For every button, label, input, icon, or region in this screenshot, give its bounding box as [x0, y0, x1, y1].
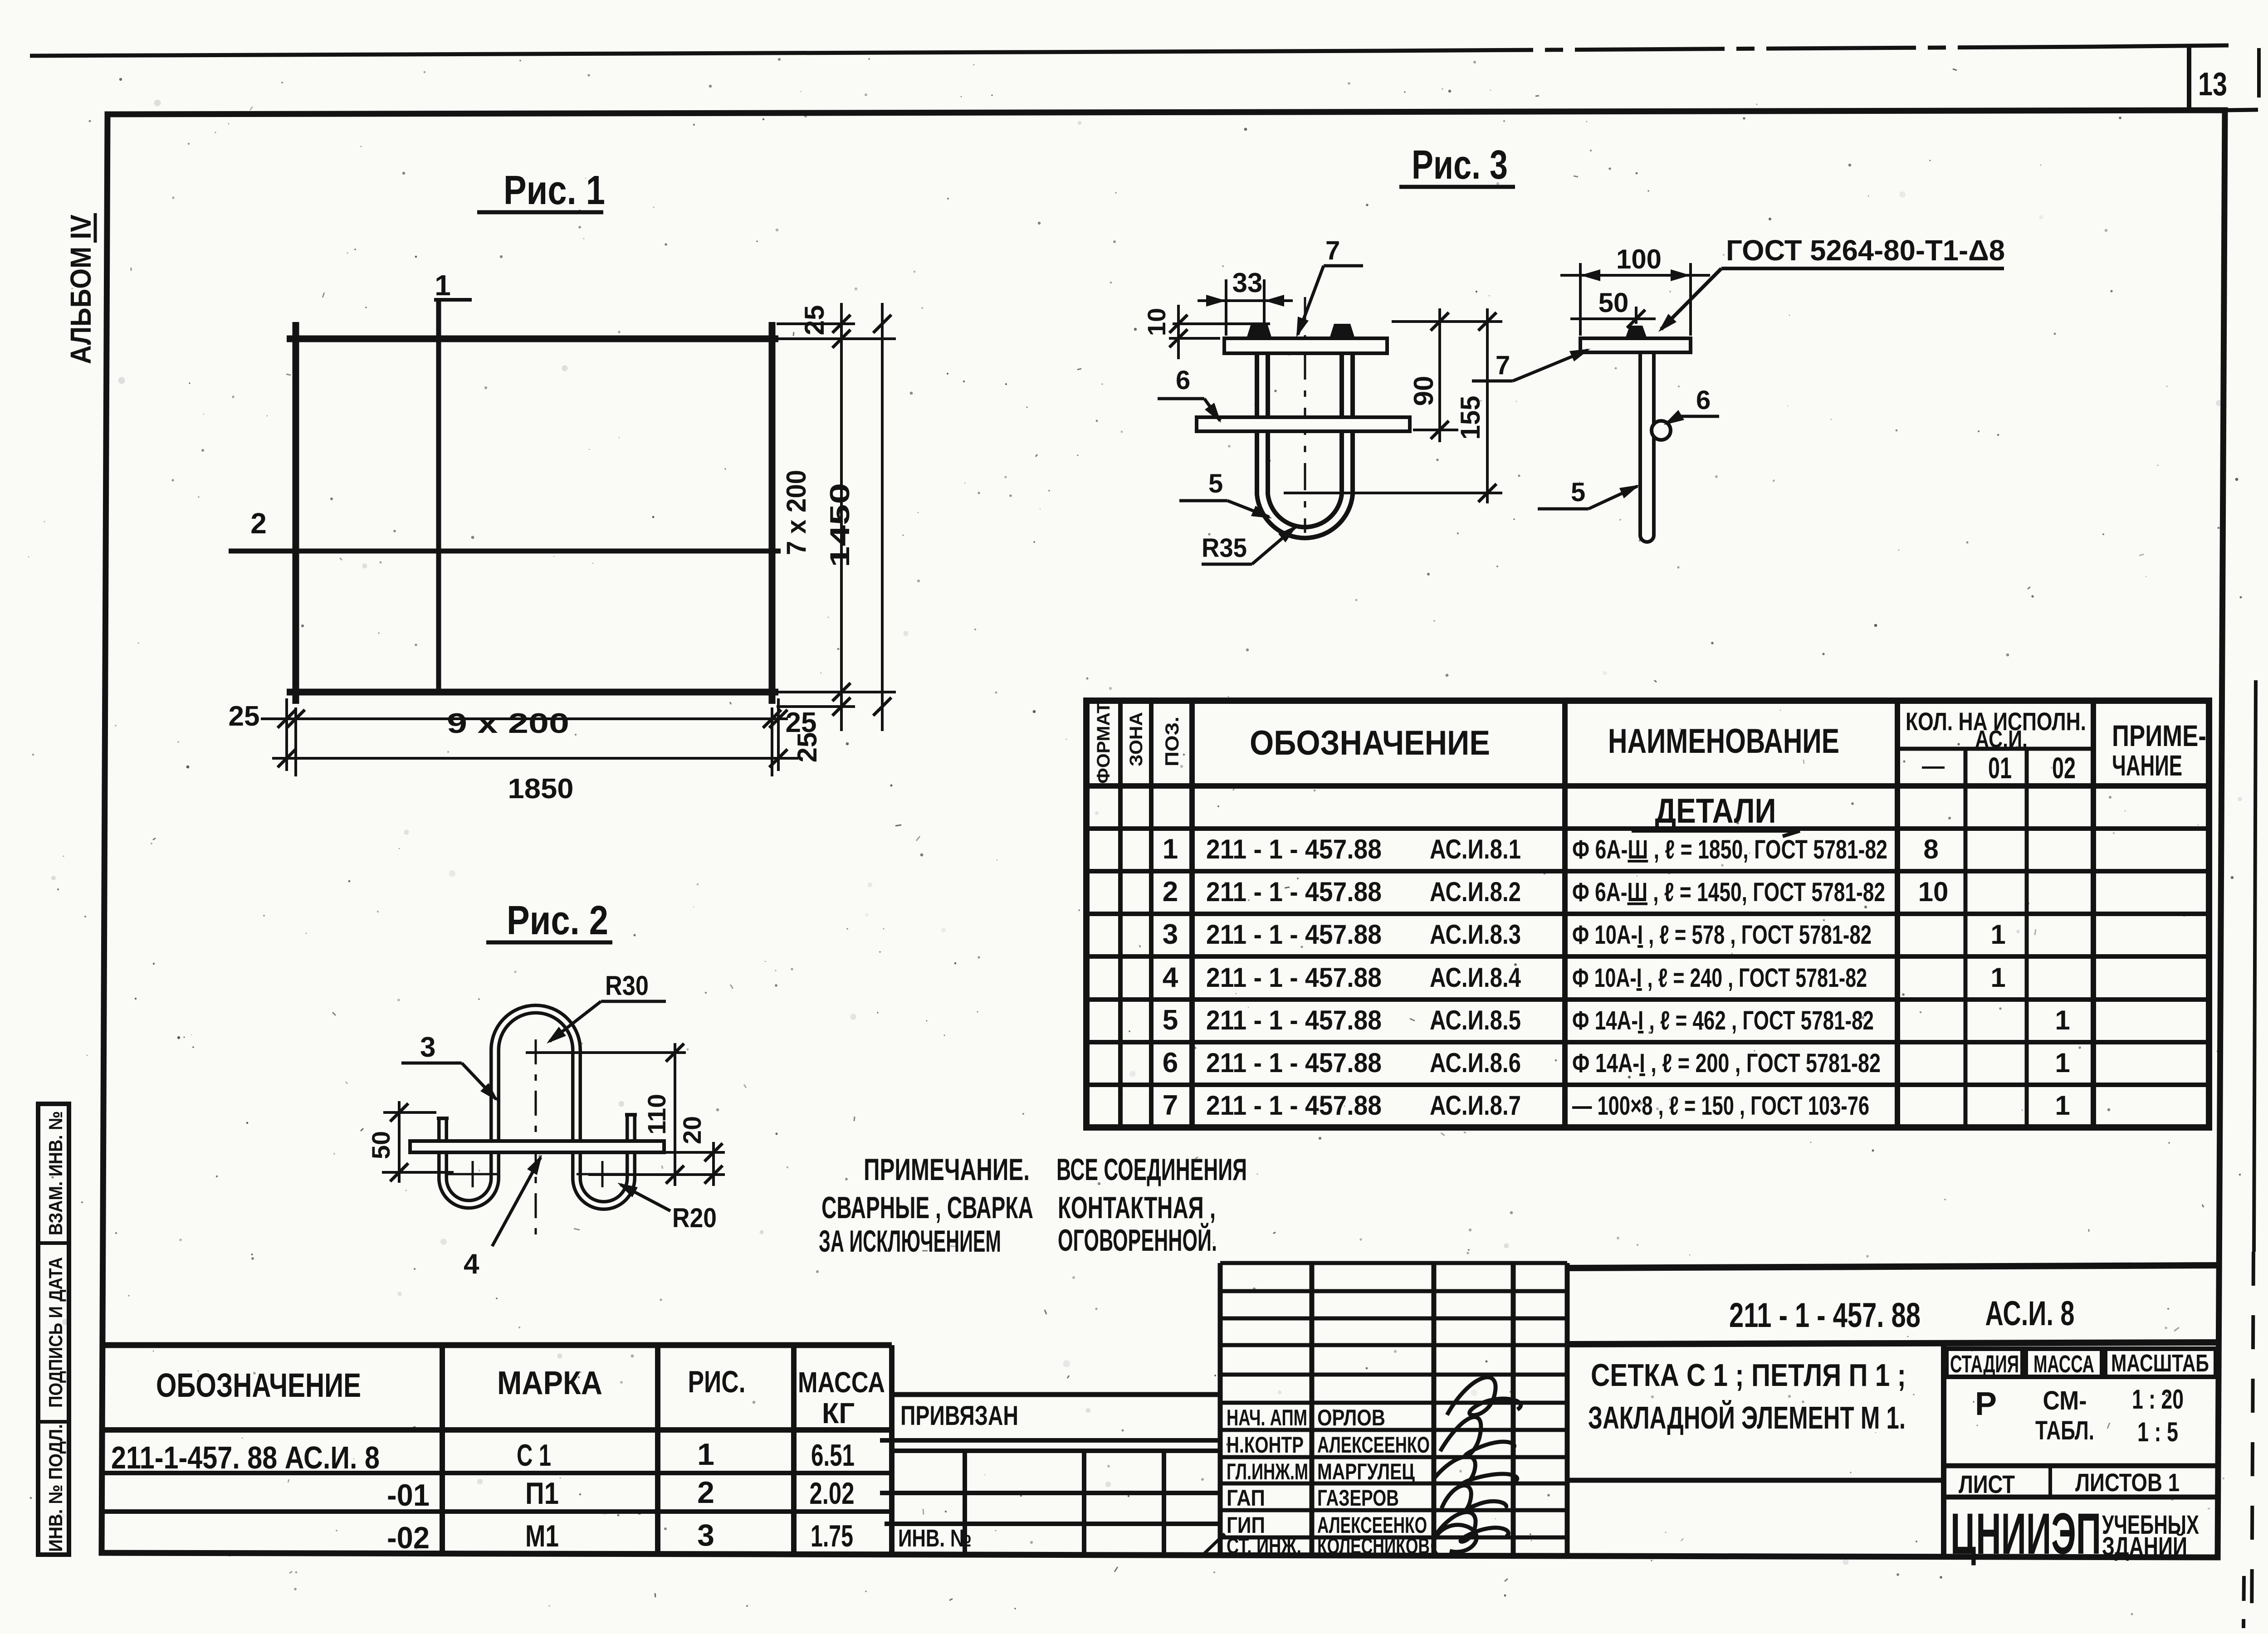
organization box top line [1944, 1495, 2218, 1500]
svg-text:25: 25 [786, 707, 817, 738]
svg-text:4: 4 [1163, 962, 1178, 993]
svg-text:ГОСТ 5264-80-Т1-Δ8: ГОСТ 5264-80-Т1-Δ8 [1726, 234, 2005, 267]
svg-text:7: 7 [1163, 1090, 1178, 1121]
fig2 right hook center cross [577, 1173, 628, 1176]
svg-text:1: 1 [1990, 919, 2005, 950]
fig1 dim line 25+9x200+25 [261, 717, 788, 720]
sig col line x=3336 [1511, 1263, 1516, 1556]
svg-text:АС.И.8.1: АС.И.8.1 [1430, 834, 1521, 864]
fig2 left hook center cross [447, 1173, 499, 1176]
svg-text:-01: -01 [387, 1478, 430, 1512]
svg-text:ГЛ.ИНЖ.М: ГЛ.ИНЖ.М [1227, 1459, 1308, 1484]
marks table col line at 975 [440, 1345, 445, 1555]
fig3 dim 50 [1635, 307, 1637, 324]
svg-text:7: 7 [1325, 236, 1340, 265]
svg-text:7: 7 [1496, 351, 1510, 380]
stadia massa masshtab boxes [1946, 1349, 2023, 1377]
svg-text:7 x 200: 7 x 200 [781, 470, 811, 555]
fig3 dim 100 [1579, 263, 1582, 336]
svg-text:АС.И. 8: АС.И. 8 [1985, 1294, 2075, 1333]
svg-text:211 - 1 - 457.88: 211 - 1 - 457.88 [1206, 1090, 1382, 1121]
sig row line y=3213 [1220, 1455, 1567, 1459]
svg-text:ПРИМЕ-: ПРИМЕ- [2112, 719, 2206, 752]
svg-text:6: 6 [1163, 1047, 1178, 1078]
fig2 label3 leader [462, 1063, 496, 1099]
spec col line qty right [2091, 701, 2096, 1127]
svg-text:8: 8 [1923, 834, 1938, 864]
svg-text:2: 2 [697, 1475, 714, 1510]
fig3 left view weld bump left [1246, 324, 1272, 338]
svg-text:МАССА: МАССА [798, 1366, 885, 1399]
svg-text:6.51: 6.51 [811, 1438, 855, 1473]
fig2 left rod end cap [437, 1117, 449, 1120]
svg-text:СЕТКА С 1 ; ПЕТЛЯ П 1 ;: СЕТКА С 1 ; ПЕТЛЯ П 1 ; [1591, 1357, 1906, 1393]
svg-text:АС.И.8.5: АС.И.8.5 [1430, 1005, 1521, 1035]
marks table top [103, 1342, 892, 1348]
svg-text:Рис. 3: Рис. 3 [1412, 142, 1508, 188]
spec ДЕТАЛИ underline [1632, 829, 1800, 833]
sig col line x=3161 [1432, 1263, 1437, 1556]
svg-text:АС.И.8.7: АС.И.8.7 [1430, 1090, 1521, 1121]
svg-text:10: 10 [1918, 877, 1949, 907]
svg-text:Ф 10А-I , ℓ = 240 , ГОСТ 5781: Ф 10А-I , ℓ = 240 , ГОСТ 5781-82 [1572, 963, 1867, 993]
sig row line y=2907 [1220, 1317, 1567, 1321]
fig2 left hook centerline [472, 1161, 474, 1187]
fig1 dim line 1850 [272, 757, 798, 760]
svg-text:ВСЕ СОЕДИНЕНИЯ: ВСЕ СОЕДИНЕНИЯ [1056, 1152, 1247, 1187]
svg-text:6: 6 [1696, 385, 1711, 415]
marks table col line at 1750 [791, 1345, 797, 1555]
specification table grid [1086, 701, 2209, 1127]
svg-text:1450: 1450 [825, 483, 855, 567]
right sheet edge mark (top) [2257, 48, 2261, 98]
svg-text:1: 1 [435, 269, 451, 302]
svg-text:211 - 1 - 457.88: 211 - 1 - 457.88 [1206, 1048, 1382, 1078]
svg-text:АС.И.8.4: АС.И.8.4 [1430, 962, 1521, 993]
svg-text:ЗДАНИЙ: ЗДАНИЙ [2102, 1532, 2187, 1561]
sig row line y=3390 [1220, 1536, 1567, 1540]
spec row line 5 [1086, 997, 2209, 1002]
figure 3 title underline [1399, 185, 1515, 189]
svg-text:3: 3 [420, 1032, 435, 1063]
svg-text:— 100×8 , ℓ = 150 , ГОСТ 103: — 100×8 , ℓ = 150 , ГОСТ 103-76 [1572, 1091, 1869, 1121]
svg-text:ФОРМАТ: ФОРМАТ [1094, 702, 1114, 784]
strip divider 2 [38, 1420, 69, 1424]
outer top border line (solid part) [30, 51, 1383, 56]
svg-text:5: 5 [1571, 478, 1585, 507]
marks table row line 2 [102, 1509, 892, 1514]
right sheet edge mark (bottom dashed) [2252, 1252, 2253, 1633]
outer top border line (right part) [2091, 45, 2229, 47]
svg-text:КОЛЕСНИКОВ: КОЛЕСНИКОВ [1317, 1533, 1430, 1559]
fig2 dimension 50 [383, 1111, 436, 1114]
svg-text:ЛИСТ: ЛИСТ [1959, 1470, 2015, 1498]
svg-text:АС.И.8.3: АС.И.8.3 [1430, 919, 1521, 950]
fig3 left view centerline [1304, 297, 1306, 533]
marks table col line at 1450 [655, 1345, 660, 1555]
marks table col line at 1966 [889, 1345, 894, 1555]
svg-text:R20: R20 [672, 1203, 717, 1233]
spec col line qty 01 [1964, 749, 1968, 1127]
svg-text:25: 25 [229, 701, 260, 732]
list row divider [2048, 1466, 2052, 1497]
svg-text:211 - 1 - 457.88: 211 - 1 - 457.88 [1206, 1005, 1382, 1035]
svg-text:33: 33 [1232, 268, 1263, 298]
fig1 item 1 label tick [434, 298, 472, 302]
fig3 left view cross rod (item 6) [1197, 417, 1410, 431]
svg-text:АЛЬБОМ IV: АЛЬБОМ IV [64, 215, 97, 364]
svg-text:ИНВ. №: ИНВ. № [898, 1525, 972, 1552]
strip divider 1 [38, 1241, 69, 1245]
fig1 mesh left longitudinal bar (item 1) [293, 322, 299, 704]
svg-text:ОГОВОРЕННОЙ.: ОГОВОРЕННОЙ. [1058, 1223, 1217, 1258]
svg-text:АС.И.8.6: АС.И.8.6 [1430, 1048, 1521, 1078]
svg-text:01: 01 [1988, 751, 2012, 785]
svg-text:ЗА ИСКЛЮЧЕНИЕМ: ЗА ИСКЛЮЧЕНИЕМ [819, 1224, 1001, 1258]
fig3 dim 10 (plate weld height) [1173, 322, 1270, 325]
svg-text:3: 3 [697, 1518, 714, 1552]
fig1 mesh top transverse bar (item 2) [287, 336, 778, 342]
sig col line x=3455 [1565, 1263, 1570, 1556]
svg-text:МАРГУЛЕЦ: МАРГУЛЕЦ [1317, 1459, 1415, 1484]
svg-text:ОБОЗНАЧЕНИЕ: ОБОЗНАЧЕНИЕ [156, 1366, 361, 1404]
sig col line x=2690 [1218, 1263, 1223, 1556]
svg-text:1: 1 [1990, 962, 2005, 993]
svg-text:НАИМЕНОВАНИЕ: НАИМЕНОВАНИЕ [1608, 722, 1839, 761]
svg-text:ГАЗЕРОВ: ГАЗЕРОВ [1317, 1485, 1399, 1511]
svg-text:ОБОЗНАЧЕНИЕ: ОБОЗНАЧЕНИЕ [1250, 724, 1490, 762]
fig3 right view plate (item 7) [1580, 338, 1691, 352]
fig1 mesh middle longitudinal bar (item 1) [436, 300, 441, 692]
fig3 left view weld bump right [1330, 324, 1355, 338]
svg-text:9 x 200: 9 x 200 [447, 708, 569, 739]
svg-text:Н.КОНТР: Н.КОНТР [1227, 1432, 1304, 1458]
svg-text:211 - 1 - 457. 88: 211 - 1 - 457. 88 [1729, 1296, 1921, 1335]
svg-text:1: 1 [2055, 1048, 2070, 1078]
sig row line y=3031 [1220, 1373, 1567, 1377]
fig2 cross bar item 4 [410, 1141, 664, 1152]
fig2 dimension 110 extension and line [526, 1051, 686, 1054]
signature squiggles [1447, 1377, 1521, 1415]
fig2 R30 underline [601, 1000, 666, 1003]
fig1 bottom dimension extension lines [294, 707, 297, 776]
svg-text:ВЗАМ. ИНВ. №: ВЗАМ. ИНВ. № [45, 1111, 66, 1235]
fig3 left view plate (item 7) [1224, 338, 1387, 353]
outer top border line (dash-dot part) [1383, 47, 2091, 51]
svg-text:С 1: С 1 [517, 1438, 551, 1473]
svg-text:3: 3 [1163, 919, 1178, 950]
svg-text:ПОЗ.: ПОЗ. [1161, 717, 1183, 766]
svg-text:110: 110 [642, 1094, 671, 1135]
svg-text:—: — [1922, 753, 1945, 779]
svg-text:50: 50 [1598, 288, 1629, 318]
fig1 mesh bottom transverse bar (item 2) [287, 689, 778, 696]
svg-text:НАЧ. АПМ: НАЧ. АПМ [1227, 1405, 1307, 1430]
fig3 dims 90 and 155 [1392, 320, 1502, 323]
sig row line y=2847 [1220, 1289, 1567, 1293]
fig1 right dimension chain extension lines [777, 322, 855, 325]
svg-text:Р: Р [1975, 1386, 1997, 1422]
svg-text:МАСШТАБ: МАСШТАБ [2111, 1350, 2209, 1377]
title name cell bottom line [1567, 1478, 1944, 1483]
spec row line 1 [1086, 826, 2209, 831]
fig1 mesh middle transverse bar (item 2) [229, 549, 781, 554]
spec col line zona [1149, 701, 1154, 1127]
svg-text:2: 2 [250, 507, 267, 540]
privyazan box [892, 1392, 1220, 1397]
lower-right outside dash [2244, 1576, 2244, 1628]
svg-text:90: 90 [1408, 376, 1439, 406]
svg-text:R35: R35 [1202, 533, 1247, 563]
svg-text:20: 20 [678, 1116, 706, 1144]
svg-text:Ф 14А-I , ℓ = 200 , ГОСТ 578: Ф 14А-I , ℓ = 200 , ГОСТ 5781-82 [1572, 1049, 1881, 1078]
svg-text:П1: П1 [525, 1476, 559, 1511]
svg-text:211 - 1 - 457.88: 211 - 1 - 457.88 [1206, 962, 1382, 993]
spec col line oboznachenie [1562, 701, 1568, 1127]
fig1 mesh right longitudinal bar (item 1) [769, 322, 776, 704]
frame top-right corner extension [2225, 110, 2258, 110]
fig3 right view weld bump [1625, 326, 1647, 338]
middle bottom sub table [892, 1449, 1220, 1453]
fig2 R20 leader [621, 1185, 670, 1211]
svg-text:1: 1 [697, 1437, 714, 1472]
fig3 left view bottom reference line [1284, 492, 1502, 494]
svg-text:М1: М1 [525, 1519, 559, 1553]
svg-text:СТАДИЯ: СТАДИЯ [1950, 1351, 2019, 1378]
svg-text:Рис. 1: Рис. 1 [503, 168, 605, 213]
sig col line x=2892 [1310, 1263, 1315, 1556]
svg-text:ТАБЛ.: ТАБЛ. [2035, 1416, 2094, 1445]
svg-text:ЛИСТОВ 1: ЛИСТОВ 1 [2075, 1468, 2180, 1497]
svg-text:ЗОНА: ЗОНА [1126, 712, 1146, 766]
fig3 right view rod section circle (item 6) [1652, 421, 1671, 440]
svg-text:ЗАКЛАДНОЙ ЭЛЕМЕНТ М 1.: ЗАКЛАДНОЙ ЭЛЕМЕНТ М 1. [1588, 1400, 1906, 1435]
title block top cell [1567, 1265, 2220, 1268]
fig3 right view: anchor rod (item 5) [1640, 346, 1654, 542]
svg-text:ЧАНИЕ: ЧАНИЕ [2112, 749, 2182, 782]
svg-text:Ф 10А-I , ℓ = 578 , ГОСТ 5781: Ф 10А-I , ℓ = 578 , ГОСТ 5781-82 [1572, 920, 1872, 950]
spec col line poz [1189, 701, 1195, 1127]
svg-text:АС.И.8.2: АС.И.8.2 [1430, 877, 1521, 907]
figure 1 title underline [477, 210, 603, 215]
fig3 dim 33 [1225, 279, 1227, 336]
sig row line y=3153 [1220, 1428, 1567, 1432]
fig2 dimension 20 [664, 1151, 725, 1154]
svg-text:ОРЛОВ: ОРЛОВ [1317, 1405, 1385, 1430]
svg-text:ЦНИИЭП: ЦНИИЭП [1950, 1502, 2101, 1566]
svg-text:ИНВ. № ПОДЛ.: ИНВ. № ПОДЛ. [45, 1424, 66, 1552]
svg-text:R30: R30 [605, 971, 649, 1001]
svg-text:1 : 20: 1 : 20 [2132, 1384, 2184, 1415]
svg-text:Ф 14А-I , ℓ = 462 , ГОСТ 5781: Ф 14А-I , ℓ = 462 , ГОСТ 5781-82 [1572, 1006, 1874, 1035]
svg-text:02: 02 [2052, 751, 2076, 785]
svg-text:211 - 1 - 457.88: 211 - 1 - 457.88 [1206, 919, 1382, 950]
spec header bottom line [1086, 783, 2209, 789]
fig3 left view: anchor loop legs (item 5) [1262, 353, 1347, 532]
svg-text:СТ. ИНЖ.: СТ. ИНЖ. [1227, 1533, 1301, 1559]
svg-text:СВАРНЫЕ , СВАРКА: СВАРНЫЕ , СВАРКА [821, 1190, 1033, 1225]
svg-text:Рис. 2: Рис. 2 [507, 898, 608, 943]
right sheet edge mark (middle solid) [2254, 680, 2256, 1252]
svg-text:13: 13 [2198, 66, 2227, 102]
figure 2 title underline [486, 941, 612, 945]
svg-text:Ф 6А-Ш , ℓ = 1850, ГОСТ 5781-8: Ф 6А-Ш , ℓ = 1850, ГОСТ 5781-82 [1572, 835, 1887, 864]
svg-text:6: 6 [1176, 366, 1190, 395]
spec col line format [1118, 701, 1123, 1127]
svg-text:10: 10 [1142, 308, 1171, 336]
title right section left edge [1941, 1343, 1946, 1556]
svg-text:АЛЕКСЕЕНКО: АЛЕКСЕЕНКО [1317, 1432, 1430, 1458]
marks table header bottom [103, 1427, 892, 1433]
svg-text:-02: -02 [387, 1521, 430, 1555]
spec qty subheader line [1897, 747, 2093, 751]
svg-text:1.75: 1.75 [811, 1519, 853, 1553]
fig1 dim line 1450 [881, 303, 884, 731]
svg-text:МАРКА: МАРКА [497, 1365, 602, 1401]
sig row line y=2785 [1220, 1261, 1567, 1265]
svg-text:2.02: 2.02 [810, 1476, 855, 1511]
page number box left edge [2187, 46, 2191, 112]
fig2 R30 leader [550, 1001, 601, 1041]
svg-text:1: 1 [2055, 1005, 2070, 1035]
svg-text:КГ: КГ [822, 1397, 855, 1429]
spec row line 7 [1086, 1083, 2209, 1087]
sig row line y=3093 [1220, 1401, 1567, 1405]
svg-text:25: 25 [799, 305, 830, 336]
spec row line 3 [1086, 912, 2209, 916]
svg-text:1: 1 [2055, 1090, 2070, 1121]
svg-text:АС.И.: АС.И. [1975, 726, 2028, 753]
spec col line qty 02 [2025, 749, 2029, 1127]
sig slash before СТ.ИНЖ. [1201, 1534, 1225, 1556]
fig2 right hook centerline [601, 1161, 604, 1187]
svg-text:5: 5 [1163, 1005, 1178, 1036]
sig row line y=2966 [1220, 1343, 1567, 1347]
svg-text:1 : 5: 1 : 5 [2137, 1417, 2178, 1447]
svg-text:1: 1 [1163, 834, 1178, 865]
svg-text:ПРИМЕЧАНИЕ.: ПРИМЕЧАНИЕ. [864, 1152, 1030, 1187]
svg-text:ПРИВЯЗАН: ПРИВЯЗАН [900, 1400, 1018, 1431]
svg-text:5: 5 [1208, 469, 1223, 498]
svg-text:ГАП: ГАП [1227, 1485, 1265, 1511]
fig1 dim line 25+7x200+25 [840, 303, 843, 731]
svg-text:РИС.: РИС. [688, 1365, 746, 1399]
fig2 label3 underline [401, 1062, 462, 1065]
fig2 loop rod P1 (item 3) outline [443, 1009, 631, 1205]
spec row line 2 [1086, 869, 2209, 873]
svg-text:4: 4 [464, 1249, 479, 1280]
spec row line 4 [1086, 954, 2209, 959]
fig2 right rod end cap [625, 1113, 637, 1117]
svg-text:2: 2 [1163, 876, 1178, 907]
svg-text:ДЕТАЛИ: ДЕТАЛИ [1655, 792, 1776, 830]
fig2 vertical centerline (dashed) [535, 1039, 537, 1243]
svg-text:211 - 1 - 457.88: 211 - 1 - 457.88 [1206, 834, 1382, 864]
fig2 label4 leader [492, 1157, 541, 1246]
list row top line [1944, 1463, 2218, 1468]
sig row line y=3271 [1220, 1482, 1567, 1486]
svg-text:211 - 1 - 457.88: 211 - 1 - 457.88 [1206, 877, 1382, 907]
marks table row line 1 [103, 1471, 892, 1475]
svg-text:КОНТАКТНАЯ ,: КОНТАКТНАЯ , [1058, 1190, 1216, 1225]
svg-text:155: 155 [1455, 396, 1486, 440]
left margin stamp strip [38, 1104, 69, 1555]
sig row line y=3330 [1220, 1508, 1567, 1512]
svg-text:100: 100 [1616, 244, 1662, 274]
svg-text:50: 50 [367, 1131, 395, 1159]
svg-text:МАССА: МАССА [2033, 1351, 2094, 1378]
svg-text:ПОДПИСЬ И ДАТА: ПОДПИСЬ И ДАТА [45, 1257, 66, 1408]
spec col line naimenovanie [1895, 701, 1900, 1127]
svg-text:Ф 6А-Ш , ℓ = 1450, ГОСТ 5781-8: Ф 6А-Ш , ℓ = 1450, ГОСТ 5781-82 [1572, 878, 1885, 907]
svg-text:211-1-457. 88 АС.И. 8: 211-1-457. 88 АС.И. 8 [111, 1440, 380, 1475]
spec ДЕТАЛИ underline arrow [1783, 831, 1800, 836]
svg-text:1850: 1850 [508, 773, 574, 805]
svg-text:СМ-: СМ- [2043, 1386, 2087, 1415]
underline of IV in АЛЬБОМ IV [94, 213, 97, 243]
spec row line 6 [1086, 1040, 2209, 1044]
